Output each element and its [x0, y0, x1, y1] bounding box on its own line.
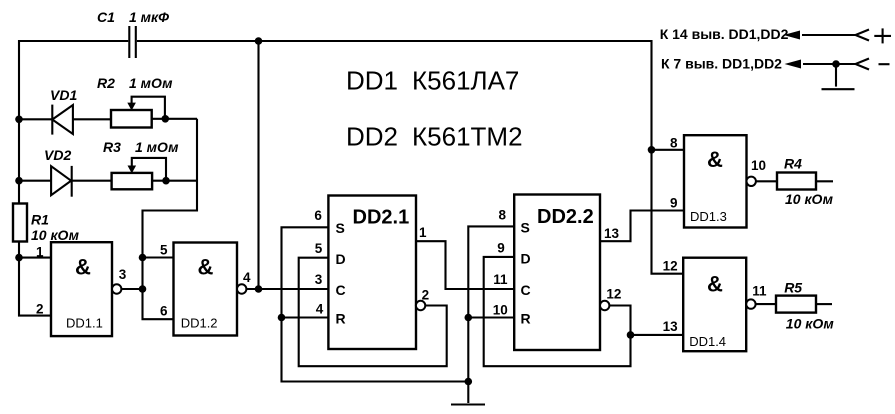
wire: to DD1.4 pin 13	[631, 334, 684, 336]
node: ground vertical bottom junction	[465, 378, 473, 386]
wire: vertical from top rail to DD1.2 output node	[257, 41, 259, 289]
flip-flop DD2.1	[314, 196, 429, 350]
svg-text:DD1.2: DD1.2	[181, 316, 218, 331]
gate DD1.2	[160, 243, 251, 336]
node: rail to DD1.3 pin 8	[648, 146, 656, 154]
svg-text:3: 3	[315, 272, 323, 287]
svg-text:10 кОм: 10 кОм	[31, 227, 80, 243]
resistor R5	[776, 280, 834, 332]
svg-text:D: D	[521, 251, 531, 267]
svg-text:5: 5	[160, 243, 168, 258]
svg-text:DD1.4: DD1.4	[689, 334, 726, 349]
flip-flop DD2.2	[493, 195, 622, 351]
gate DD1.3	[670, 135, 766, 227]
wire: DD2.1 output 1 to DD2.2 C input	[416, 241, 514, 289]
wire: DD2.2 R input	[468, 316, 514, 318]
svg-text:R4: R4	[784, 156, 802, 172]
node: power minus label	[661, 56, 890, 72]
potentiometer R2	[97, 75, 173, 128]
diode VD2	[44, 147, 72, 197]
svg-text:R3: R3	[103, 139, 121, 155]
wire: DD2.2 S input to ground vertical	[468, 226, 514, 403]
wire: left rail lower to DD1.1 pin 2	[19, 242, 51, 316]
svg-text:D: D	[336, 251, 346, 267]
node: top rail / C1 junction	[255, 37, 263, 45]
wire: R4 right	[816, 180, 833, 182]
svg-text:1 мОм: 1 мОм	[129, 75, 173, 91]
svg-text:R2: R2	[97, 75, 115, 91]
wire: DD1.3 output to R4	[756, 180, 777, 182]
svg-text:1 мкФ: 1 мкФ	[129, 9, 169, 25]
wire: R2/R3 vertical down, over to DD1.2 pin 6 vertical	[143, 119, 198, 319]
node: output 12 / DD1.4 pin 13 junction	[627, 331, 635, 339]
svg-text:C1: C1	[97, 9, 115, 25]
svg-text:&: &	[198, 255, 214, 280]
wire: top rail left + left rail upper	[19, 41, 128, 204]
node: pin 5 junction	[139, 254, 147, 262]
svg-text:11: 11	[752, 284, 767, 299]
wire: DD2.1 S input loop to ground rail	[282, 227, 469, 381]
gate DD1.4	[663, 258, 767, 352]
ground (power)	[822, 64, 855, 89]
wire: VD2 row	[19, 180, 112, 182]
wire: DD1.2 output to DD2.1 C input	[246, 288, 328, 290]
node: pin 3 junction	[139, 285, 147, 293]
wire: R2 right to vertical	[152, 118, 197, 120]
svg-text:R5: R5	[784, 280, 802, 296]
wire: DD2.2 output 13 to DD1.3 pin 9	[600, 211, 684, 242]
svg-text:1: 1	[419, 225, 427, 240]
node: minus ground junction	[832, 60, 840, 68]
svg-text:C: C	[336, 282, 346, 298]
wire: DD1.1 output to junction	[121, 288, 142, 290]
svg-text:3: 3	[119, 267, 127, 282]
svg-text:12: 12	[606, 287, 621, 302]
capacitor C1	[97, 9, 169, 58]
svg-text:4: 4	[316, 301, 324, 316]
ground	[451, 403, 485, 405]
wire: to DD1.2 pin 5	[143, 256, 174, 258]
svg-text:8: 8	[499, 208, 507, 223]
svg-text:DD1.3: DD1.3	[690, 209, 727, 224]
svg-text:S: S	[521, 220, 530, 236]
wire: to DD1.1 pin 1	[19, 257, 51, 259]
svg-text:6: 6	[160, 303, 168, 318]
wire: R3 right to vertical	[152, 180, 197, 182]
svg-text:4: 4	[243, 270, 251, 285]
svg-text:&: &	[75, 255, 91, 280]
svg-text:13: 13	[604, 226, 620, 241]
wire: DD2.1 R input	[282, 316, 329, 318]
svg-text:1: 1	[36, 245, 44, 260]
svg-text:8: 8	[670, 136, 678, 151]
svg-text:К561ЛА7: К561ЛА7	[412, 66, 519, 96]
wire: top rail right going down to DD1.4 pin 12	[137, 41, 683, 274]
svg-text:К 14 выв. DD1,DD2: К 14 выв. DD1,DD2	[660, 26, 789, 42]
svg-text:12: 12	[663, 259, 678, 274]
svg-text:DD2.1: DD2.1	[353, 207, 410, 229]
svg-text:R1: R1	[31, 212, 49, 228]
svg-text:9: 9	[497, 241, 505, 256]
svg-text:1 мОм: 1 мОм	[135, 139, 179, 155]
node: left rail VD2	[15, 177, 23, 185]
svg-text:DD2.2: DD2.2	[537, 206, 594, 228]
svg-text:DD1.1: DD1.1	[66, 316, 103, 331]
svg-text:6: 6	[314, 208, 322, 223]
node: R2 wiper junction	[162, 115, 170, 123]
svg-text:К 7 выв. DD1,DD2: К 7 выв. DD1,DD2	[661, 56, 782, 72]
gate DD1.1	[36, 242, 127, 336]
svg-text:9: 9	[670, 196, 678, 211]
resistor R4	[777, 156, 834, 208]
node: DD1.1 pin 1 junction	[15, 254, 23, 262]
svg-text:R: R	[336, 311, 346, 327]
wire: DD2.2 output 12 feedback to D input	[484, 257, 631, 366]
node: S/R junction DD2.1	[278, 314, 286, 322]
svg-text:&: &	[707, 272, 723, 297]
wire: to DD1.3 pin 8	[652, 149, 685, 151]
node: DD1.2 output junction	[255, 285, 263, 293]
node: R3 wiper junction	[162, 177, 170, 185]
wire: DD1.4 output to R5	[756, 303, 776, 305]
svg-text:&: &	[707, 147, 723, 172]
svg-text:VD1: VD1	[50, 87, 77, 103]
node: ground vertical R junction	[465, 314, 473, 322]
diode VD1	[50, 87, 77, 135]
svg-text:VD2: VD2	[44, 147, 71, 163]
svg-text:DD1: DD1	[346, 66, 398, 96]
svg-text:10 кОм: 10 кОм	[785, 191, 834, 207]
wire: VD1 row	[19, 118, 111, 120]
svg-text:К561ТМ2: К561ТМ2	[412, 122, 523, 152]
svg-text:R: R	[521, 311, 531, 327]
wire: DD2.1 output 2 feedback to D input	[299, 258, 447, 367]
svg-text:2: 2	[36, 302, 44, 317]
svg-text:5: 5	[315, 241, 323, 256]
node: left rail VD1	[15, 116, 23, 124]
svg-text:11: 11	[493, 272, 508, 287]
svg-text:10: 10	[751, 158, 766, 173]
svg-text:C: C	[521, 282, 531, 298]
svg-text:10: 10	[493, 303, 508, 318]
potentiometer R3	[103, 139, 179, 189]
node: power plus label	[660, 26, 891, 43]
svg-text:13: 13	[663, 319, 679, 334]
svg-text:10 кОм: 10 кОм	[786, 316, 835, 332]
resistor R1	[13, 204, 80, 244]
wire: R5 right	[816, 303, 832, 305]
svg-text:DD2: DD2	[346, 122, 398, 152]
svg-text:S: S	[336, 220, 345, 236]
